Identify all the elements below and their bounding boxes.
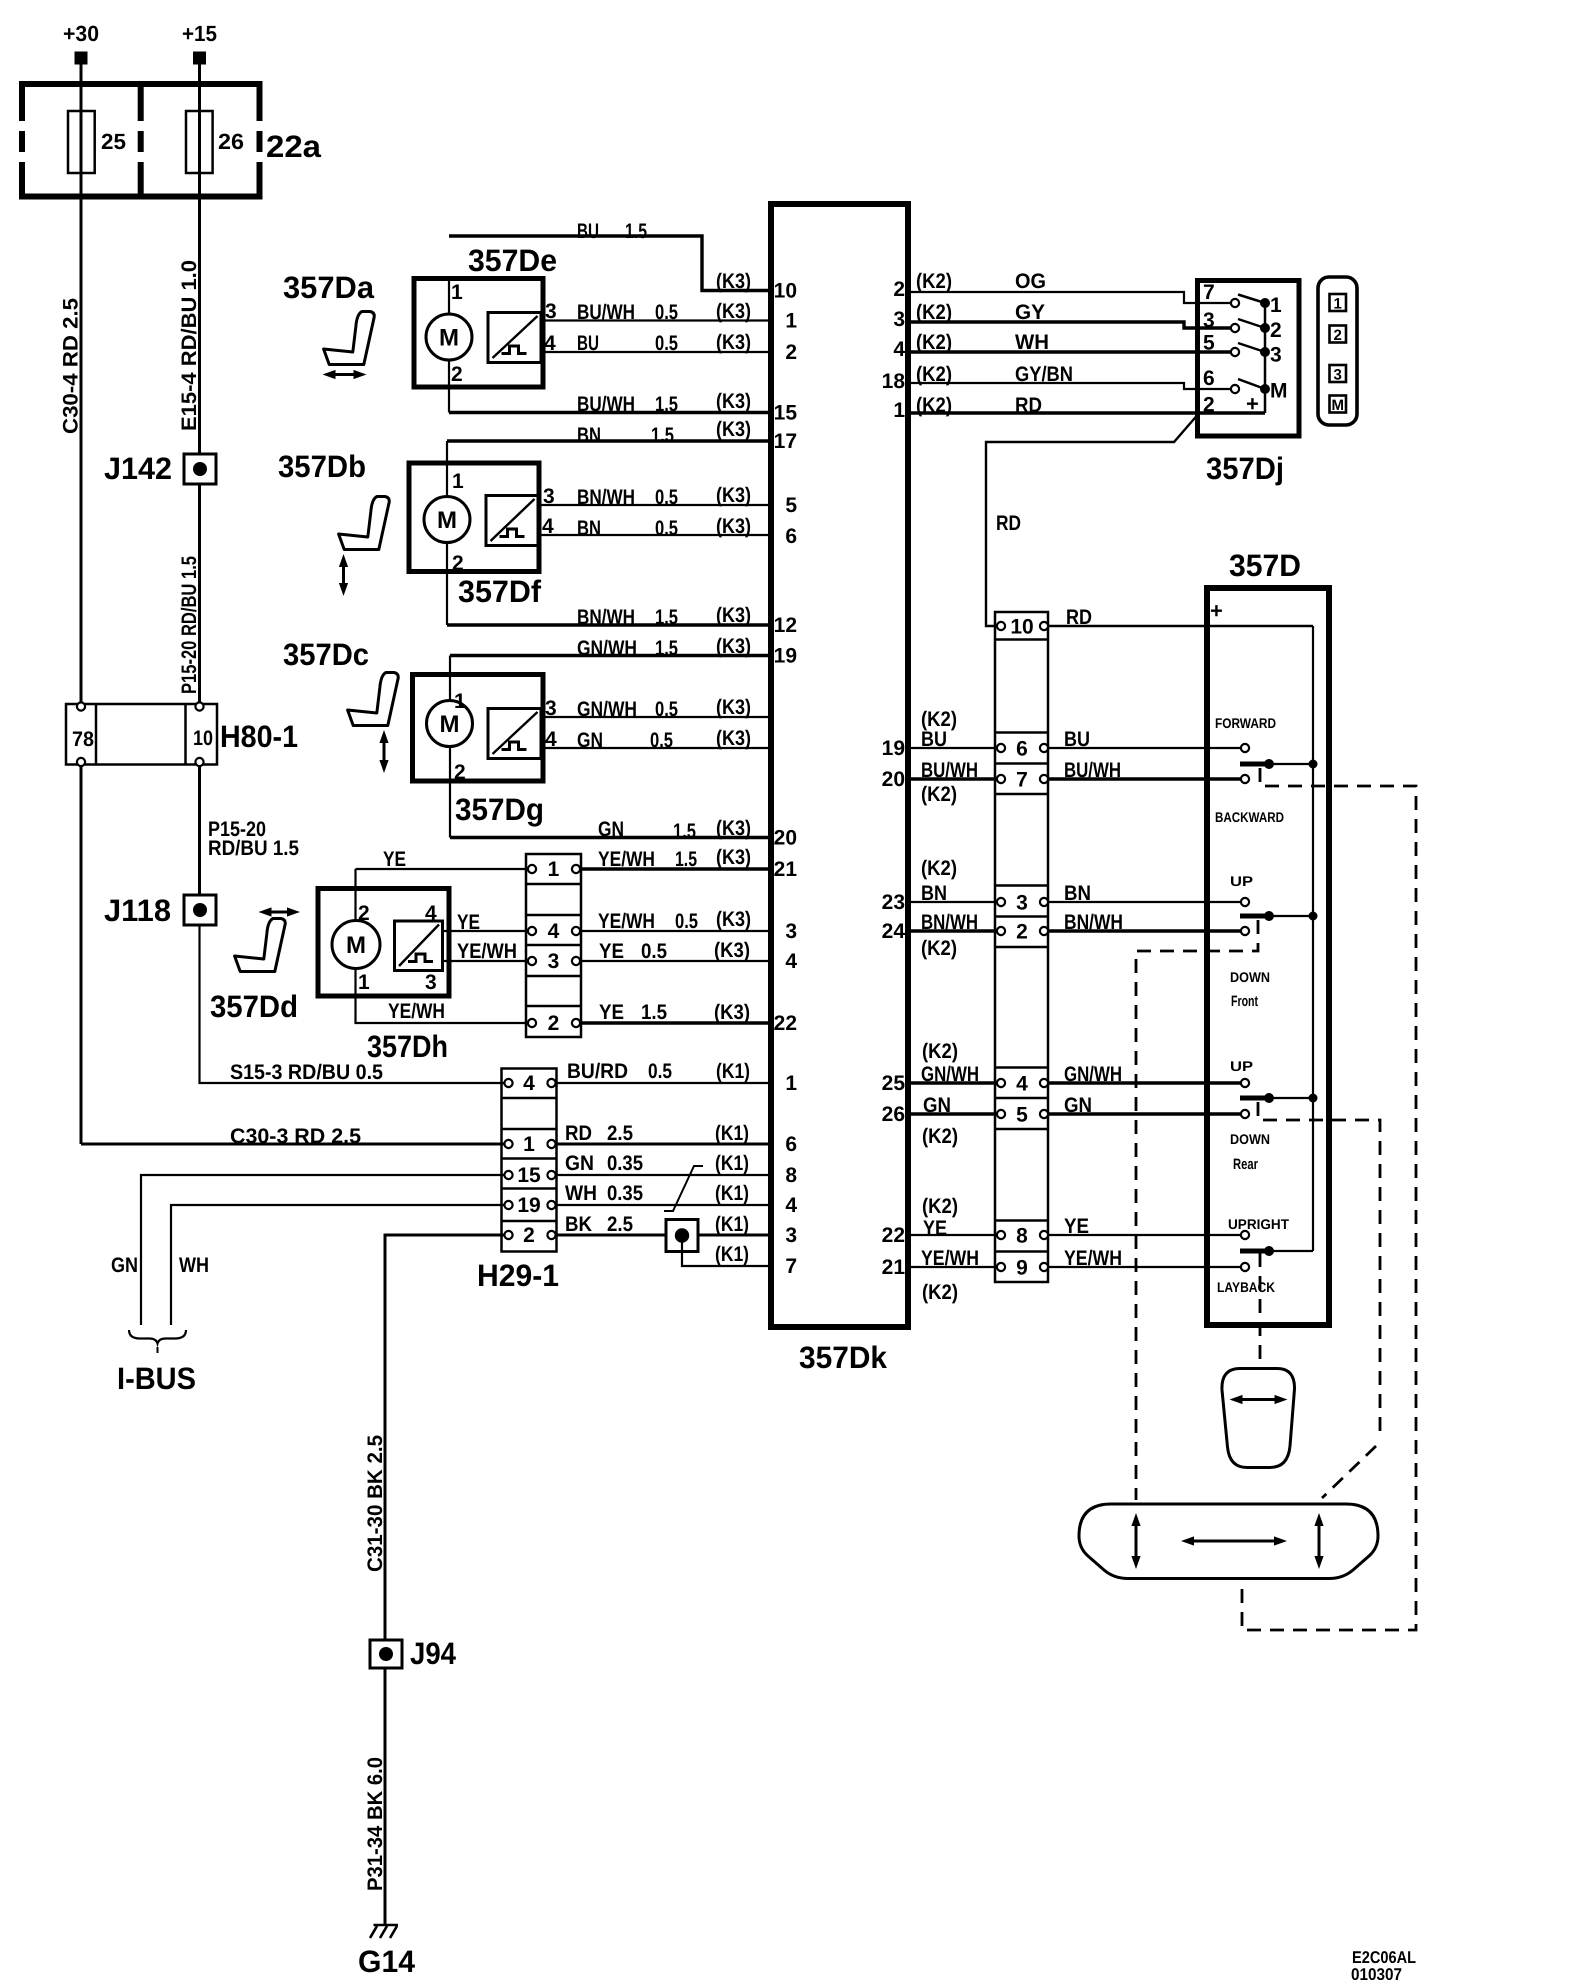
svg-text:3: 3 [543, 485, 555, 508]
svg-text:BU: BU [1064, 728, 1090, 751]
svg-text:357Db: 357Db [278, 449, 366, 484]
FORWARD contact [1215, 715, 1276, 752]
svg-text:1: 1 [358, 971, 370, 994]
svg-text:YE: YE [383, 848, 406, 871]
svg-text:(K2): (K2) [922, 1040, 958, 1063]
svg-text:YE: YE [599, 1001, 624, 1024]
svg-text:M: M [439, 325, 459, 352]
svg-text:DOWN: DOWN [1230, 969, 1270, 985]
svg-text:0.5: 0.5 [655, 698, 678, 721]
svg-text:Front: Front [1231, 993, 1258, 1010]
wire BN (357Dk pin23 to connector pin3) [908, 857, 997, 905]
svg-text:C30-3 RD 2.5: C30-3 RD 2.5 [230, 1125, 361, 1148]
svg-text:BU/WH: BU/WH [577, 301, 635, 324]
svg-text:2: 2 [1270, 319, 1282, 342]
svg-text:C30-4 RD 2.5: C30-4 RD 2.5 [60, 298, 83, 434]
fuse 26 [186, 111, 244, 173]
svg-text:1: 1 [1270, 294, 1282, 317]
svg-text:(K3): (K3) [716, 300, 751, 323]
svg-text:357Dg: 357Dg [455, 792, 544, 827]
svg-text:4: 4 [1016, 1073, 1028, 1096]
svg-text:(K2): (K2) [922, 1125, 958, 1148]
svg-text:C31-30 BK 2.5: C31-30 BK 2.5 [364, 1435, 387, 1572]
svg-text:+30: +30 [63, 21, 99, 46]
svg-text:BU: BU [577, 332, 599, 355]
svg-text:357De: 357De [468, 243, 557, 278]
wire BU (357Dk pin19 to connector pin6) [908, 708, 997, 751]
svg-text:357D: 357D [1229, 548, 1301, 583]
svg-text:(K3): (K3) [716, 846, 751, 869]
svg-text:3: 3 [785, 1224, 797, 1247]
wire RD branch (diagonal to connector pin10) [986, 416, 1197, 627]
svg-text:18: 18 [882, 370, 906, 393]
svg-text:UP: UP [1230, 1058, 1253, 1074]
drawing number [1351, 1948, 1416, 1980]
svg-text:20: 20 [774, 827, 797, 850]
svg-text:2: 2 [358, 902, 370, 925]
switch unit 357D [1207, 548, 1329, 1325]
svg-text:GN: GN [111, 1254, 138, 1277]
sensor pin 3 wire BN/WH 0.5 to 357Dk pin5 [538, 484, 771, 509]
svg-text:1.5: 1.5 [655, 606, 678, 629]
svg-text:3: 3 [893, 308, 905, 331]
svg-text:2: 2 [1016, 921, 1028, 944]
svg-text:5: 5 [1016, 1104, 1028, 1127]
wire S15-3 RD/BU 0.5 (J118 to H29-1 pin4) [200, 925, 505, 1084]
svg-text:0.5: 0.5 [641, 940, 667, 963]
svg-text:WH: WH [179, 1254, 209, 1277]
I-BUS node [117, 1330, 196, 1396]
svg-text:YE/WH: YE/WH [921, 1247, 979, 1270]
svg-text:GN: GN [565, 1152, 594, 1175]
svg-text:GN: GN [577, 729, 603, 752]
motor 357Dh (backrest motor with position sensor) [318, 889, 449, 1065]
svg-text:E15-4 RD/BU 1.0: E15-4 RD/BU 1.0 [178, 260, 201, 431]
svg-text:1: 1 [523, 1133, 535, 1156]
svg-text:S15-3 RD/BU 0.5: S15-3 RD/BU 0.5 [230, 1061, 383, 1084]
svg-text:10: 10 [774, 280, 797, 303]
svg-text:Rear: Rear [1233, 1156, 1258, 1173]
svg-text:3: 3 [785, 920, 797, 943]
svg-text:9: 9 [1016, 1257, 1028, 1280]
svg-text:4: 4 [425, 902, 437, 925]
svg-text:12: 12 [774, 614, 797, 637]
svg-text:(K2): (K2) [921, 783, 957, 806]
svg-text:(K2): (K2) [916, 301, 952, 324]
svg-text:1: 1 [785, 310, 797, 333]
svg-text:6: 6 [785, 1133, 797, 1156]
linkage fore/aft (dashed) [1242, 768, 1416, 1630]
svg-text:8: 8 [1016, 1225, 1028, 1248]
svg-text:22: 22 [882, 1224, 905, 1247]
svg-text:22: 22 [774, 1012, 797, 1035]
svg-text:RD/BU 1.5: RD/BU 1.5 [208, 837, 299, 860]
svg-text:(K2): (K2) [922, 1281, 958, 1304]
svg-text:357Da: 357Da [283, 270, 375, 305]
svg-text:357Dd: 357Dd [210, 989, 298, 1024]
svg-text:2: 2 [454, 761, 466, 784]
splice J142 [104, 451, 216, 486]
svg-text:(K1): (K1) [715, 1213, 749, 1236]
wire YE 1.5 to 357Dk pin22 [581, 1001, 771, 1024]
junction on BK wire [666, 1220, 698, 1252]
linkage backrest (dashed) [1259, 1253, 1262, 1366]
svg-text:(K1): (K1) [715, 1122, 749, 1145]
svg-text:BU: BU [577, 220, 599, 243]
svg-text:GN: GN [1064, 1094, 1092, 1117]
wire YE/WH (connector pin9 to LAYBACK contact) [1048, 1247, 1241, 1270]
terminal +15 [182, 21, 217, 65]
svg-text:26: 26 [882, 1103, 905, 1126]
svg-text:2.5: 2.5 [607, 1122, 633, 1145]
sensor pin 4 wire BN 0.5 to 357Dk pin6 [538, 515, 771, 540]
svg-text:YE/WH: YE/WH [1064, 1247, 1122, 1270]
svg-text:0.5: 0.5 [655, 332, 678, 355]
pin 2 wire 357Df / wire BN/WH 1.5 to 357Dk pin12 [447, 543, 771, 630]
svg-text:357Dj: 357Dj [1206, 451, 1284, 486]
wire YE/WH (357Dh pin1 to connector pin2) [356, 969, 529, 1024]
svg-text:24: 24 [882, 920, 906, 943]
svg-text:0.5: 0.5 [655, 301, 678, 324]
switch blade fore/aft [1240, 759, 1318, 769]
label 357Dd [210, 989, 298, 1024]
svg-text:RD: RD [996, 512, 1021, 535]
terminal +30 [63, 21, 99, 65]
svg-text:1.5: 1.5 [655, 637, 678, 660]
svg-text:BN: BN [577, 517, 601, 540]
svg-text:4: 4 [893, 338, 905, 361]
svg-text:20: 20 [882, 768, 905, 791]
svg-text:4: 4 [542, 515, 554, 538]
svg-text:UP: UP [1230, 873, 1253, 889]
svg-text:M: M [437, 507, 457, 534]
svg-text:78: 78 [72, 728, 94, 751]
svg-text:2: 2 [1334, 327, 1342, 344]
svg-text:+: + [1246, 391, 1259, 416]
svg-text:YE/WH: YE/WH [457, 940, 517, 963]
svg-text:2: 2 [548, 1012, 560, 1035]
LAYBACK contact [1217, 1263, 1275, 1295]
wire BK 2.5 (H29-1 pin3 down to J94) [364, 1235, 504, 1640]
svg-text:M: M [440, 711, 460, 738]
vertical label P15-20 RD/BU 1.5 [178, 556, 201, 694]
svg-text:BK: BK [565, 1213, 592, 1236]
svg-text:BN/WH: BN/WH [921, 911, 978, 934]
svg-text:4: 4 [548, 920, 560, 943]
backrest control knob [1222, 1369, 1295, 1468]
motor 357Df (front height motor with position sensor) [409, 463, 542, 609]
wire E15-4 RD/BU 1.0 (fuse 26 down to H80-1) [178, 173, 201, 703]
wire WH 0.35 to 357Dk pin4 (K1) [557, 1182, 772, 1205]
wire GN (connector pin5 to DOWN rear contact) [1048, 1094, 1241, 1117]
svg-text:GN/WH: GN/WH [921, 1063, 979, 1086]
linkage rear height (dashed) [1258, 1102, 1380, 1498]
seat control knob [1079, 1504, 1378, 1579]
svg-text:J94: J94 [410, 1636, 457, 1671]
svg-text:19: 19 [517, 1194, 540, 1217]
svg-text:6: 6 [1203, 367, 1215, 390]
svg-text:3: 3 [425, 971, 437, 994]
pin 2 wire 357Dg / wire GN 1.5 to 357Dk pin20 [450, 747, 771, 844]
pin 1 wire 357Dg / wire GN/WH 1.5 to 357Dk pin19 [450, 635, 771, 701]
seat icon 357Dc (rear height motor) [348, 673, 399, 774]
svg-text:BU: BU [921, 728, 947, 751]
svg-text:YE: YE [923, 1217, 947, 1240]
+ bus inside 357D [1312, 626, 1314, 1251]
svg-text:H29-1: H29-1 [477, 1258, 559, 1293]
svg-text:6: 6 [1016, 738, 1028, 761]
svg-text:+: + [1210, 598, 1223, 623]
svg-text:3: 3 [545, 697, 557, 720]
svg-text:BN/WH: BN/WH [1064, 911, 1123, 934]
svg-text:0.5: 0.5 [655, 517, 678, 540]
wire GN/WH (357Dk pin25 to connector pin4) [908, 1040, 997, 1086]
svg-text:YE/WH: YE/WH [598, 848, 655, 871]
svg-text:1: 1 [452, 470, 464, 493]
svg-text:25: 25 [882, 1072, 906, 1095]
sensor pin 4 wire GN 0.5 to 357Dk pin8 [541, 727, 771, 752]
svg-text:21: 21 [882, 1256, 906, 1279]
svg-text:15: 15 [774, 402, 798, 425]
svg-text:YE: YE [1064, 1215, 1089, 1238]
svg-text:GN/WH: GN/WH [577, 637, 637, 660]
svg-text:RD: RD [565, 1122, 592, 1145]
svg-text:5: 5 [1203, 332, 1215, 355]
svg-text:GN: GN [598, 818, 624, 841]
wire GY/BN (357Dk pin18 to 357Dj pin6) [908, 363, 1231, 389]
svg-text:GY/BN: GY/BN [1015, 363, 1073, 386]
svg-text:(K3): (K3) [716, 390, 751, 413]
svg-text:YE: YE [599, 940, 624, 963]
UP front contact [1230, 873, 1253, 906]
svg-text:3: 3 [1203, 309, 1215, 332]
splice J94 [370, 1636, 457, 1671]
svg-text:3: 3 [548, 950, 560, 973]
wire BU (connector pin6 to FORWARD contact) [1048, 728, 1241, 751]
svg-text:GN/WH: GN/WH [1064, 1063, 1122, 1086]
svg-text:4: 4 [523, 1072, 535, 1095]
svg-text:4: 4 [785, 1194, 797, 1217]
wire WH (357Dk pin4 to 357Dj pin5) [908, 331, 1231, 354]
seat icon 357Dd (backrest motor) [235, 907, 300, 971]
control unit 357Dk [771, 204, 908, 1375]
svg-text:BU/WH: BU/WH [577, 393, 635, 416]
svg-text:J118: J118 [104, 893, 171, 928]
svg-text:G14: G14 [358, 1944, 416, 1979]
switch blade backrest [1240, 1246, 1313, 1256]
wire GY (357Dk pin3 to 357Dj pin3) [908, 301, 1231, 328]
svg-text:19: 19 [882, 737, 905, 760]
svg-text:H80-1: H80-1 [220, 719, 298, 754]
wire P15-20 RD/BU 1.5 below H80-1 [200, 766, 300, 895]
wire junction to 357Dk pin7 (K1) [682, 1242, 771, 1266]
switch position legend (1 2 3 M) [1318, 277, 1357, 425]
svg-text:(K2): (K2) [916, 363, 952, 386]
wire YE (357Dh sensor pin4 to connector pin4) [443, 911, 529, 934]
UPRIGHT contact [1228, 1216, 1289, 1239]
svg-text:8: 8 [785, 1164, 797, 1187]
svg-text:M: M [346, 932, 366, 959]
svg-text:7: 7 [1016, 769, 1028, 792]
svg-text:22a: 22a [266, 129, 322, 164]
svg-text:1: 1 [548, 858, 560, 881]
svg-text:4: 4 [545, 728, 557, 751]
wire C30-4 below H80-1 [80, 766, 83, 1144]
svg-text:25: 25 [101, 129, 126, 154]
wire GN/WH (connector pin4 to UP rear contact) [1048, 1063, 1241, 1086]
wire BN (connector pin3 to UP front contact) [1048, 882, 1241, 905]
inline connector 357Dk-to-357D [995, 612, 1048, 1282]
wire BU/WH (connector pin7 to BACKWARD contact) [1048, 759, 1241, 782]
svg-text:10: 10 [1010, 616, 1033, 639]
svg-text:(K3): (K3) [714, 939, 750, 962]
wire +30 to fuse 25 [80, 65, 83, 112]
svg-text:BN: BN [921, 882, 947, 905]
svg-text:1.5: 1.5 [651, 424, 674, 447]
svg-text:(K1): (K1) [715, 1243, 749, 1266]
svg-text:6: 6 [785, 525, 797, 548]
svg-text:23: 23 [882, 891, 905, 914]
svg-text:GN/WH: GN/WH [577, 698, 637, 721]
svg-text:1.5: 1.5 [655, 393, 678, 416]
svg-text:1: 1 [893, 399, 905, 422]
seat icon 357Db (front height motor) [339, 497, 390, 597]
wire YE (357Dk pin22 to connector pin8) [908, 1195, 997, 1240]
svg-text:5: 5 [785, 494, 797, 517]
svg-text:BU/WH: BU/WH [921, 759, 978, 782]
svg-text:3: 3 [1334, 367, 1342, 384]
svg-text:(K2): (K2) [916, 394, 952, 417]
svg-text:BN/WH: BN/WH [577, 606, 635, 629]
svg-text:0.5: 0.5 [648, 1060, 672, 1083]
svg-text:BU/RD: BU/RD [567, 1060, 628, 1083]
switch blade rear height [1240, 1093, 1318, 1103]
svg-text:UPRIGHT: UPRIGHT [1228, 1216, 1289, 1232]
svg-text:0.5: 0.5 [675, 910, 698, 933]
svg-text:3: 3 [1016, 892, 1028, 915]
svg-text:1: 1 [785, 1072, 797, 1095]
wire P31-34 BK 6.0 (J94 to ground) [364, 1668, 387, 1924]
ground G14 [358, 1925, 416, 1979]
DOWN front contact [1230, 927, 1270, 1010]
wire YE/WH 0.5 to 357Dk pin3 [581, 908, 771, 933]
seat icon 357Da (fore/aft motor) [323, 312, 375, 380]
svg-text:2: 2 [1203, 394, 1215, 417]
svg-text:(K3): (K3) [716, 515, 751, 538]
svg-text:GN: GN [923, 1094, 951, 1117]
svg-text:357Dk: 357Dk [799, 1340, 888, 1375]
svg-text:(K2): (K2) [922, 1195, 958, 1218]
wire RD 2.5 to 357Dk pin6 (K1) [557, 1122, 772, 1145]
label 357Da [283, 270, 375, 305]
svg-text:1.5: 1.5 [675, 848, 697, 871]
svg-text:3: 3 [545, 300, 557, 323]
wire C30-4 RD 2.5 (fuse 25 down to H80-1) [60, 173, 83, 703]
svg-text:1.5: 1.5 [641, 1001, 667, 1024]
svg-text:RD: RD [1015, 394, 1042, 417]
svg-text:1: 1 [454, 690, 466, 713]
svg-text:21: 21 [774, 858, 798, 881]
svg-text:RD: RD [1066, 606, 1092, 629]
switch blade front height [1240, 911, 1318, 921]
label 357Db [278, 449, 366, 484]
svg-text:I-BUS: I-BUS [117, 1361, 196, 1396]
svg-text:WH: WH [1015, 331, 1049, 354]
svg-text:2: 2 [893, 278, 905, 301]
svg-text:BN/WH: BN/WH [577, 486, 635, 509]
svg-text:(K2): (K2) [916, 331, 952, 354]
svg-text:(K3): (K3) [716, 817, 751, 840]
svg-text:0.35: 0.35 [607, 1152, 643, 1175]
label 357Dc [283, 637, 369, 672]
svg-text:J142: J142 [104, 451, 172, 486]
wire BK 2.5 to 357Dk pin3 (K1) [557, 1213, 772, 1236]
svg-text:WH: WH [565, 1182, 597, 1205]
memory switch 357Dj [1198, 281, 1300, 487]
wire BN/WH (connector pin2 to DOWN front contact) [1048, 911, 1241, 934]
svg-text:M: M [1331, 397, 1344, 414]
svg-text:0.5: 0.5 [655, 486, 678, 509]
svg-text:17: 17 [774, 430, 797, 453]
splice J118 [104, 893, 216, 928]
svg-text:BN: BN [1064, 882, 1091, 905]
svg-text:0.35: 0.35 [607, 1182, 643, 1205]
svg-text:(K3): (K3) [716, 270, 751, 293]
wire BU/WH (357Dk pin20 to connector pin7) [908, 759, 997, 806]
wire YE (357Dh pin2 to connector pin1) [356, 848, 529, 921]
twisted pair marker (GN/WH bus wires) [664, 1166, 703, 1211]
wire GN 0.35 to 357Dk pin8 (K1) [557, 1152, 772, 1175]
svg-text:357Df: 357Df [458, 574, 542, 609]
UP rear contact [1230, 1058, 1253, 1087]
wire BU/RD 0.5 to 357Dk pin1 (K1) [557, 1060, 772, 1083]
pin 2 wire 357De / wire BU/WH 1.5 to 357Dk pin15 [449, 360, 771, 416]
svg-text:2: 2 [452, 552, 464, 575]
inline connector 357Dh-to-357Dk [526, 854, 581, 1037]
motor 357Dg (rear height motor with position sensor) [413, 675, 545, 828]
wire BN/WH (357Dk pin24 to connector pin2) [908, 911, 997, 960]
DOWN rear contact [1230, 1110, 1270, 1173]
svg-text:1.5: 1.5 [625, 220, 647, 243]
fuse box 22a [19, 81, 322, 200]
svg-text:(K1): (K1) [716, 1060, 750, 1083]
svg-text:(K3): (K3) [716, 331, 751, 354]
svg-text:2: 2 [785, 341, 797, 364]
svg-text:7: 7 [1203, 281, 1215, 304]
svg-text:3: 3 [1270, 344, 1282, 367]
wire WH (I-BUS to H29-1 pin19) [171, 1205, 504, 1325]
svg-text:(K1): (K1) [715, 1152, 749, 1175]
svg-text:YE/WH: YE/WH [388, 1000, 445, 1023]
wire YE (connector pin8 to UPRIGHT contact) [1048, 1215, 1241, 1238]
svg-text:FORWARD: FORWARD [1215, 715, 1276, 731]
svg-text:357Dh: 357Dh [367, 1029, 448, 1064]
pin 1 wire 357De / wire BU 1.5 to 357Dk pin10 [449, 220, 771, 314]
svg-text:P15-20 RD/BU 1.5: P15-20 RD/BU 1.5 [178, 556, 201, 694]
sensor pin 4 wire BU 0.5 to 357Dk pin2 [541, 331, 771, 355]
svg-text:GY: GY [1015, 301, 1045, 324]
svg-text:2: 2 [451, 363, 463, 386]
wire YE/WH (357Dh sensor pin3 to connector pin3) [443, 940, 529, 963]
svg-text:DOWN: DOWN [1230, 1131, 1270, 1147]
connector H29-1 [477, 1069, 559, 1294]
wire RD (357Dk pin1 to 357Dj pin2 / +) [908, 394, 1265, 417]
svg-text:M: M [1270, 380, 1288, 403]
svg-text:(K3): (K3) [716, 635, 751, 658]
wire YE/WH (357Dk pin21 to connector pin9) [908, 1247, 997, 1304]
svg-text:(K3): (K3) [716, 696, 751, 719]
svg-text:(K3): (K3) [716, 418, 751, 441]
